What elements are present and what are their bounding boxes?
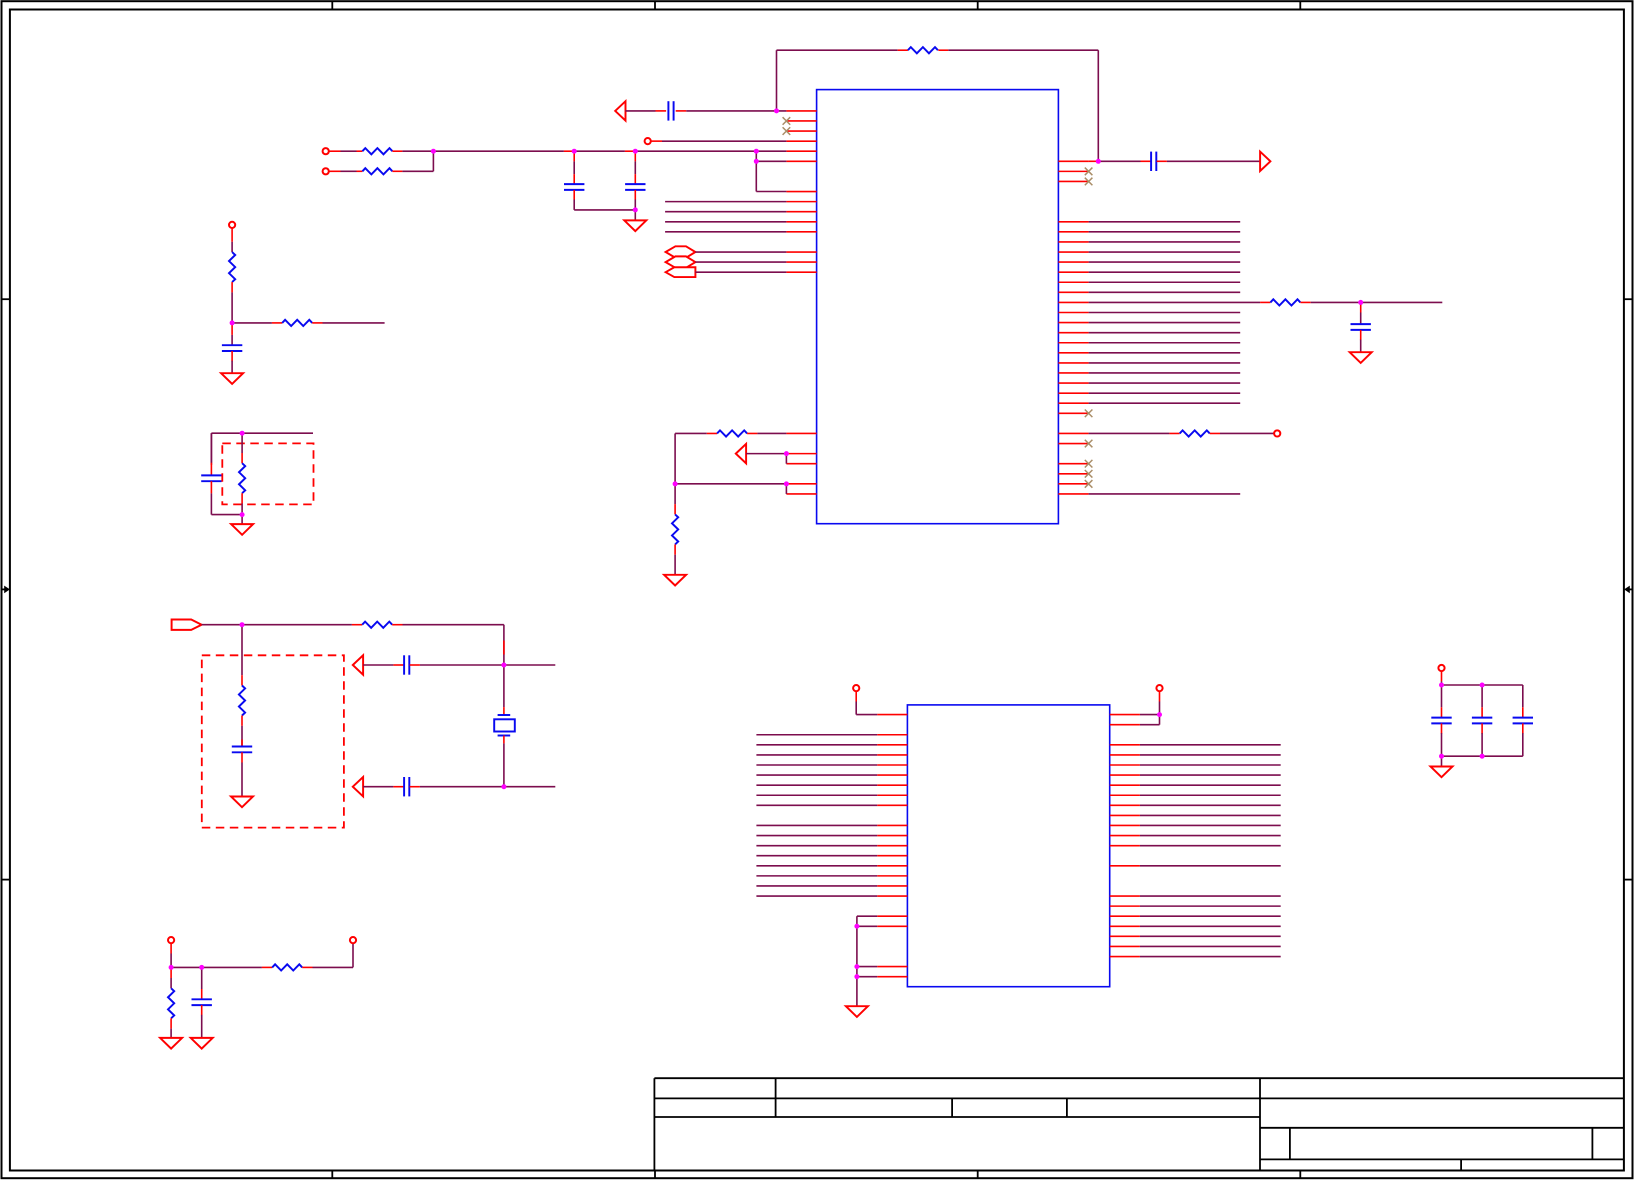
- junction: [633, 149, 638, 154]
- wire C8 to node: [410, 664, 504, 666]
- IC U2 body: [907, 705, 1109, 987]
- left edge zone ticks: [2, 299, 10, 879]
- wire R4 net: [675, 432, 717, 434]
- wire to ground: [634, 210, 636, 221]
- terminal T2: [323, 148, 329, 154]
- junction: [230, 320, 235, 325]
- junction: [431, 149, 436, 154]
- ground: [1431, 767, 1453, 778]
- wire T8 to U2: [856, 691, 877, 714]
- ground: [1350, 352, 1372, 363]
- capacitor C11: [192, 967, 212, 1038]
- capacitor C7: [201, 433, 221, 514]
- wire main net: [433, 150, 786, 152]
- right edge zone ticks: [1624, 299, 1633, 879]
- wire R6 to node: [1300, 301, 1442, 303]
- wire to ground: [241, 515, 243, 525]
- junction: [854, 924, 859, 929]
- wire P7 to R11: [202, 624, 363, 626]
- junction: [1439, 683, 1444, 688]
- no-connect marks U1 right: [1085, 168, 1093, 488]
- wire T3 to R3: [329, 170, 363, 172]
- wire jog pin 35: [785, 454, 787, 464]
- wire bus U2 right lower: [1140, 896, 1281, 956]
- left edge centre arrow: [2, 586, 10, 594]
- capacitor C4: [1150, 152, 1152, 171]
- resistor R10: [239, 433, 245, 514]
- terminal T5: [229, 222, 235, 228]
- wire node stub right: [504, 664, 555, 666]
- ground: [624, 220, 646, 231]
- junction: [774, 108, 779, 113]
- IC U1 body: [817, 90, 1059, 524]
- power arrow P9: [353, 777, 363, 796]
- wire to ground: [1441, 756, 1443, 766]
- junction: [784, 451, 789, 456]
- resistor R6: [1270, 299, 1300, 305]
- junction: [501, 784, 506, 789]
- resistor R9: [282, 320, 312, 326]
- junction: [1480, 754, 1485, 759]
- junction: [673, 481, 678, 486]
- bottom edge zone ticks: [332, 1171, 1300, 1180]
- wire R3 up to node: [392, 151, 433, 171]
- resistor R13: [272, 964, 302, 970]
- wire C9 to node: [410, 786, 504, 788]
- wire to R9: [232, 322, 282, 324]
- wire T2 to R2: [329, 150, 363, 152]
- resistor R12: [239, 625, 245, 747]
- terminal T10: [1438, 665, 1444, 671]
- capacitor C5: [1351, 302, 1371, 352]
- terminal T8: [853, 685, 859, 691]
- wire right pin38: [1089, 493, 1241, 495]
- wire U2 right middle: [1140, 865, 1281, 867]
- wire R7 net: [1089, 432, 1180, 434]
- resistor R1: [908, 47, 938, 53]
- wire stub to pin 6: [756, 151, 786, 191]
- IC U1 left pins: [786, 111, 816, 494]
- capacitor C13: [1472, 685, 1492, 756]
- junction: [572, 149, 577, 154]
- junction: [240, 431, 245, 436]
- wire P5 to pin: [746, 453, 786, 455]
- wire node A top: [211, 433, 313, 465]
- IC U2 right pins: [1110, 715, 1140, 957]
- junction: [1439, 754, 1444, 759]
- wire node A bottom: [211, 514, 242, 516]
- no-connect marks U1 left: [783, 117, 791, 135]
- wire C1 to U1 pin: [676, 110, 787, 112]
- capacitor C9: [403, 777, 405, 796]
- capacitor C3: [625, 151, 645, 210]
- junction: [1358, 300, 1363, 305]
- capacitor C1: [667, 101, 669, 120]
- wire jog pin 38: [785, 484, 787, 494]
- junction: [633, 207, 638, 212]
- resistor R3: [362, 168, 392, 174]
- resistor R5: [672, 484, 678, 575]
- power arrow P1: [615, 101, 625, 120]
- power arrow P8: [353, 655, 363, 674]
- power arrow P6: [1260, 152, 1270, 171]
- wire T9 to U2: [1140, 691, 1160, 724]
- wire T6 down: [170, 943, 172, 967]
- wire bus U2 left upper: [756, 735, 877, 806]
- dashed box RT2: [202, 655, 344, 827]
- junction: [1480, 683, 1485, 688]
- capacitor C6: [222, 323, 242, 373]
- wire P8 to C8: [363, 664, 404, 666]
- wire P2: [695, 251, 786, 253]
- resistor R14: [168, 967, 174, 1038]
- terminal T7: [350, 937, 356, 943]
- capacitor C8: [403, 655, 405, 674]
- ground: [846, 1006, 868, 1017]
- junction: [754, 159, 759, 164]
- resistor R2: [362, 148, 392, 154]
- wire bus U2 left lower: [756, 825, 877, 896]
- wire left branch: [675, 433, 786, 483]
- wire U2 ground bus: [857, 916, 877, 1006]
- ground: [160, 1038, 182, 1049]
- terminal T1: [645, 138, 651, 144]
- terminal T3: [323, 168, 329, 174]
- wire C4 to arrow: [1157, 160, 1261, 162]
- terminal T9: [1156, 685, 1162, 691]
- wire bus U1 right: [1089, 222, 1241, 403]
- terminal T4: [1274, 430, 1280, 436]
- crystal X1: [494, 665, 515, 787]
- junction: [754, 149, 759, 154]
- wire R11 to corner: [392, 625, 504, 665]
- ground: [231, 524, 253, 535]
- capacitor C10: [232, 740, 252, 797]
- ground: [191, 1038, 213, 1049]
- junction: [1157, 712, 1162, 717]
- top edge zone ticks: [332, 1, 1300, 9]
- wire R13 to T7: [302, 943, 353, 967]
- junction: [784, 481, 789, 486]
- wire P4: [695, 271, 786, 273]
- junction: [169, 965, 174, 970]
- wire R9 stub: [312, 322, 384, 324]
- junction: [501, 663, 506, 668]
- capacitor C14: [1513, 685, 1533, 756]
- resistor R4: [717, 430, 747, 436]
- wire right pin5 net: [1089, 160, 1151, 162]
- dashed box RT1: [222, 443, 313, 504]
- power arrow P5: [736, 444, 746, 463]
- junction: [1096, 159, 1101, 164]
- junction: [240, 512, 245, 517]
- wire R6 net: [1089, 301, 1271, 303]
- resistor R7: [1180, 430, 1210, 436]
- wire bus U1 left: [665, 202, 786, 232]
- wire P1 to C1: [626, 110, 667, 112]
- title block: [654, 1078, 1624, 1170]
- port P7: [172, 620, 202, 630]
- wire P9 to C9: [363, 786, 404, 788]
- wire across to R13: [171, 966, 272, 968]
- resistor R8: [229, 228, 235, 323]
- wire cap bank top rail: [1442, 684, 1523, 686]
- wire T10 down: [1441, 671, 1443, 685]
- wire R4 to pin: [747, 432, 786, 434]
- wire R2 to node: [392, 150, 433, 152]
- port P3: [666, 256, 696, 267]
- wire cap bank bottom rail: [1442, 755, 1523, 757]
- wire feedback loop: [777, 50, 1099, 161]
- ground: [221, 373, 243, 384]
- right edge centre arrow: [1624, 586, 1633, 594]
- capacitor C2: [564, 151, 635, 210]
- wire P3: [695, 261, 786, 263]
- IC U2 left pins: [877, 715, 907, 977]
- capacitor C12: [1431, 685, 1451, 756]
- junction: [199, 965, 204, 970]
- port P4: [666, 267, 696, 277]
- IC U1 right pins: [1058, 161, 1088, 494]
- junction: [854, 964, 859, 969]
- wire bus U2 right upper: [1140, 745, 1281, 846]
- resistor R11: [362, 622, 392, 628]
- ground: [664, 575, 686, 586]
- wire R7 to T4: [1210, 432, 1274, 434]
- wire node stub right lower: [504, 786, 555, 788]
- junction: [240, 622, 245, 627]
- junction: [854, 974, 859, 979]
- wire T1 to U1: [651, 140, 787, 142]
- ground: [231, 797, 253, 808]
- port P2: [666, 246, 696, 257]
- terminal T6: [168, 937, 174, 943]
